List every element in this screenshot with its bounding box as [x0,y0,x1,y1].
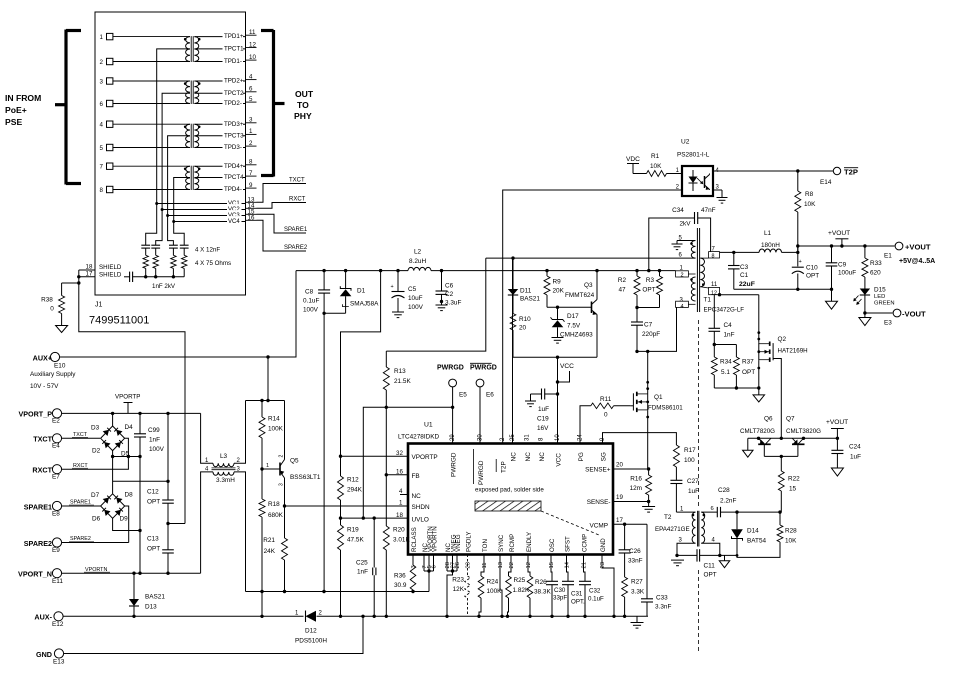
diode D12 PDS5100H [295,611,327,645]
capacitor C25 1nF [356,518,376,616]
svg-text:0.1uF: 0.1uF [588,596,604,603]
svg-text:7499511001: 7499511001 [89,315,149,327]
svg-text:Q1: Q1 [654,394,663,401]
U1 bottom pin 3 RCLASS [411,527,418,568]
svg-text:PDS5100H: PDS5100H [295,638,327,645]
transformer T1 EPC3472G-LF [672,228,745,314]
svg-text:IN FROM: IN FROM [5,93,41,103]
svg-text:D3: D3 [91,425,100,432]
svg-text:26: 26 [455,562,461,568]
svg-text:R17: R17 [684,447,696,454]
svg-text:SFST: SFST [564,536,571,552]
wire GND pin to rail [602,555,614,617]
capacitor C9 100uF [826,246,857,289]
diode D11 BAS21 [508,258,541,313]
svg-text:3.3K: 3.3K [631,589,645,596]
wire VPORT_N to L3 pin4 [201,472,213,573]
svg-text:OPT.: OPT. [571,599,585,606]
svg-text:5.1: 5.1 [721,369,730,376]
resistor R2 47 [618,271,640,310]
svg-text:E13: E13 [53,659,65,666]
svg-text:U1: U1 [424,422,433,429]
svg-text:E6: E6 [486,392,494,399]
svg-text:620: 620 [870,270,881,277]
ground chassis at R38 [56,326,68,333]
svg-text:Q5: Q5 [290,458,299,465]
svg-text:NC: NC [511,452,518,462]
svg-text:C4: C4 [724,322,733,329]
svg-text:C13: C13 [147,536,159,543]
J1 T2 center tap wire to VC2 [162,93,190,209]
svg-text:20: 20 [616,462,623,469]
svg-text:100V: 100V [303,307,319,314]
wire T1 pin7/8 to L1 [720,251,760,254]
wire shield to C12/C13 column [79,283,185,524]
svg-text:BAS21: BAS21 [520,296,540,303]
diode D15 LED GREEN [853,287,894,314]
U1 bottom pin 11 TON [482,539,489,568]
wire opto pin2 to T2P pin [503,190,682,444]
svg-text:3.3uF: 3.3uF [445,300,461,307]
wire VPORTN pins junction [424,555,434,592]
svg-text:VPORT_N: VPORT_N [18,570,52,579]
transistor Q2 HAT2169H MOSFET [757,295,807,388]
U1 bottom pin 5 VPORTN [427,526,434,568]
U1 top pin 24 PG [578,434,586,462]
svg-text:31: 31 [525,434,531,441]
svg-text:C32: C32 [589,588,601,595]
wire SPARE2 row [62,536,129,543]
J1 right pins 3 1 2 [245,117,256,147]
U1 bottom pin 6 VPORTN [431,526,438,568]
wire UVLO row [339,516,408,519]
transistor Q6 CMLT7820G [740,416,775,457]
wire PG pin to R11 [580,406,591,444]
svg-text:C26: C26 [629,548,641,555]
svg-text:J1: J1 [95,302,103,309]
J1 transformer T1 windings [184,36,201,62]
svg-text:11: 11 [711,282,718,288]
J1 termination RC column 1 [141,204,156,277]
svg-text:C24: C24 [849,444,861,451]
wire L3 pin3 down [234,472,246,592]
svg-text:E12: E12 [52,621,64,628]
svg-text:+: + [391,284,394,290]
svg-text:14: 14 [565,561,571,568]
svg-text:OUT: OUT [295,89,314,99]
wire bridge2 right to SPARE2 [125,506,129,543]
wire AUX+ to divider top [246,357,285,402]
svg-text:OPT: OPT [806,273,819,280]
U1 pin 4 NC [399,488,421,500]
capacitor C31 OPT [562,555,585,617]
net SPARE2 stub [257,220,308,251]
svg-text:1: 1 [249,128,253,135]
connector J1 box [95,12,246,295]
wire SENSE+ row [613,467,650,470]
svg-text:C25: C25 [356,560,368,567]
wire bridge1 to bridge2 vertical [112,457,114,494]
svg-text:FMMT624: FMMT624 [565,292,595,299]
svg-text:R14: R14 [268,416,280,423]
J1 right pins 13 14 15 16 [245,197,256,222]
wire L3 pin2 up [234,401,246,464]
resistor R16 12m [630,475,652,502]
svg-text:GREEN: GREEN [874,301,895,307]
svg-text:TPD1+: TPD1+ [224,33,244,40]
svg-text:AUX+: AUX+ [33,354,52,363]
svg-text:0.1uF: 0.1uF [303,298,319,305]
svg-text:2: 2 [681,273,684,279]
J1 T4 center tap wire to VC4 [174,178,190,222]
resistor R28 10K [737,512,797,557]
capacitor C19 1uF 16V [525,389,558,433]
svg-text:TPCT1: TPCT1 [224,46,244,53]
svg-text:R27: R27 [631,579,643,586]
net TXCT stub [257,178,307,203]
svg-text:EPC3472G-LF: EPC3472G-LF [704,307,745,314]
svg-text:E9: E9 [52,547,60,554]
svg-text:3: 3 [249,117,253,124]
svg-text:SHIELD: SHIELD [99,264,122,271]
J1 T3 right wires TPD3+ TPCT3 TPD3- [194,118,245,151]
svg-text:T2: T2 [664,514,672,521]
wire VCC node row [513,356,597,444]
wire SHDN row [283,504,408,507]
svg-text:3: 3 [279,483,285,486]
U1 top pin 29 PWRGD [450,434,458,477]
svg-text:6: 6 [100,101,104,108]
diode D14 BAT54 schottky [731,512,766,555]
resistor R19 47.5K [338,518,365,616]
ground triangle at C11 [719,555,730,567]
svg-text:47.5K: 47.5K [347,537,364,544]
capacitor C4 1nF [709,295,735,346]
svg-text:4: 4 [249,73,253,80]
capacitor C33 3.3nF [641,595,671,617]
wire R34 R37 bottom to Q2 source [714,386,760,389]
inductor L2 8.2uH [408,249,431,271]
resistor R23 12K optional [452,555,470,617]
svg-text:BSS63LT1: BSS63LT1 [290,474,321,481]
svg-text:R11: R11 [600,396,612,403]
wire SG row [603,433,677,445]
svg-text:PWRGD: PWRGD [437,365,464,372]
U1 top pin 9 SG [600,437,608,461]
resistor R9 20K [544,271,565,308]
svg-text:C27: C27 [687,478,699,485]
U1 bottom pin 23 GND [600,538,607,569]
svg-text:12: 12 [249,41,256,48]
wire NC pin25 stub [512,258,514,443]
svg-text:C9: C9 [838,262,847,269]
svg-text:R22: R22 [788,476,800,483]
svg-text:2kV: 2kV [679,221,691,228]
diode bridge D3 D4 D2 D5 [91,413,133,457]
svg-text:C34: C34 [672,207,684,214]
svg-text:8: 8 [249,159,253,166]
svg-text:VDC: VDC [626,156,640,163]
svg-text:R20: R20 [393,527,405,534]
svg-text:R10: R10 [519,316,531,323]
J1 termination RC column 2 [151,210,162,277]
svg-text:LED: LED [874,294,885,300]
svg-text:13: 13 [498,562,504,568]
svg-text:C31: C31 [571,591,583,598]
svg-text:22uF: 22uF [739,281,755,288]
svg-text:E5: E5 [459,392,467,399]
svg-text:C2: C2 [445,291,454,298]
J1 T4 right wires TPD4+ TPCT4 TPD4- [194,160,245,193]
svg-text:22: 22 [509,562,515,568]
terminal RXCT E7 [32,465,61,481]
svg-text:10: 10 [555,434,561,441]
capacitor C5 10uF 100V [391,271,424,318]
svg-text:12: 12 [526,562,532,568]
svg-text:C12: C12 [147,489,159,496]
resistor R13 21.5K [383,351,411,475]
U1 bottom pin 21 CCMP [581,534,588,569]
svg-text:294K: 294K [347,487,363,494]
resistor R11 0 [591,396,631,419]
wire bridge2 bottom [113,518,142,532]
J1 VC1-VC4 wires [155,198,245,225]
capacitor C10 OPT [792,246,819,289]
svg-text:SPARE1: SPARE1 [70,500,91,506]
J1 right pins 11 12 10 [245,29,256,61]
svg-text:FDMS86101: FDMS86101 [648,405,683,412]
svg-text:R36: R36 [394,573,406,580]
svg-text:6: 6 [249,86,253,93]
svg-text:PoE+: PoE+ [5,105,27,115]
svg-text:E14: E14 [820,179,832,186]
ground triangle at Q2 source [753,388,765,402]
wire T1 pin11/12 to Q2 drain [718,293,759,296]
U1 top pin 2 T2P [496,437,508,473]
svg-text:5: 5 [249,96,253,103]
U1 pin 17 VCMP [590,517,624,530]
J1 left pin 1 [100,33,191,41]
svg-text:RCLASS: RCLASS [411,527,418,552]
svg-text:SPARE2: SPARE2 [24,539,52,548]
svg-text:TXCT: TXCT [33,435,52,444]
svg-text:TPD1-: TPD1- [224,58,242,65]
resistor R22 15 [778,471,800,512]
svg-text:8: 8 [100,187,104,194]
svg-text:+VOUT: +VOUT [826,419,848,426]
svg-text:CMLT3820G: CMLT3820G [786,428,821,435]
capacitor C28 2.2nF [711,487,738,517]
svg-text:R37: R37 [742,359,754,366]
diode D17 zener 7.5V CMHZ4693 [551,307,594,343]
wire VPORTP to pin 32 [339,455,408,458]
wire L1 to +VOUT node [782,244,800,254]
svg-text:R2: R2 [618,277,627,284]
svg-text:R12: R12 [347,477,359,484]
svg-text:CCMP: CCMP [581,534,588,552]
svg-text:TPCT4: TPCT4 [224,174,244,181]
svg-text:8.2uH: 8.2uH [409,258,426,265]
svg-text:VPORTP: VPORTP [115,394,140,401]
svg-text:VCMP: VCMP [590,523,608,530]
transistor Q7 CMLT3820G [786,416,821,457]
capacitor 1nF 2kV shield cap [124,272,184,290]
svg-text:C3: C3 [740,264,749,271]
J1 termination RC column 4 [174,222,189,277]
svg-text:VCC: VCC [560,363,574,370]
U1 bottom pin 27 VNEG [450,534,457,568]
terminal GND E13 [36,649,65,666]
ground at bottom rail [631,616,644,628]
transistor Q3 FMMT624 [565,271,597,358]
svg-text:Auxiliary Supply: Auxiliary Supply [30,371,76,378]
wire Q1 source to SENSE [647,411,650,475]
J1 transformer T4 windings [184,166,201,190]
capacitor C13 OPT [147,524,174,575]
svg-text:38.3K: 38.3K [534,589,551,596]
svg-text:180nH: 180nH [761,242,780,249]
wire TXCT row [62,432,100,438]
wire rail to VPORTP divider [341,269,383,456]
svg-text:2: 2 [249,140,253,147]
svg-text:GND: GND [36,650,52,659]
svg-text:SPARE1: SPARE1 [24,503,52,512]
svg-text:100V: 100V [408,304,424,311]
svg-text:Q3: Q3 [584,282,593,289]
svg-text:C33: C33 [656,595,668,602]
svg-text:OPT: OPT [147,499,160,506]
svg-text:2.2nF: 2.2nF [720,498,736,505]
svg-text:GND: GND [600,538,607,552]
resistor R34 5.1 [711,345,732,389]
U1 top pin 8 NC [539,437,547,461]
wire VNEG pins junction [447,555,457,617]
wire VPORT_P to L3 pin1 [201,413,213,463]
svg-text:FB: FB [412,473,420,480]
svg-text:11: 11 [249,29,256,36]
svg-text:EPA4271GE: EPA4271GE [655,526,690,533]
wire Q6 Q7 top row [748,437,839,440]
wire VCMP to C26 C33 [625,524,647,599]
wire bridge1 bottom row [111,451,142,459]
wire aux winding to R13 pullup [386,258,486,351]
wire secondary gnd row with C11 [675,554,738,557]
J1 left pin 2 [100,58,191,66]
J1 T3 center tap wire to VC3 [168,136,190,216]
svg-text:RXCT: RXCT [32,466,52,475]
wire Q6 Q7 emitter row [764,455,798,471]
svg-text:VPORTN: VPORTN [431,526,438,552]
svg-text:TPD3-: TPD3- [224,144,242,151]
wire SPARE1 row [62,500,101,507]
svg-text:C5: C5 [408,286,417,293]
svg-text:Q7: Q7 [786,416,795,423]
svg-text:R23: R23 [452,577,464,584]
capacitor C3 C1 22uF [728,252,755,289]
svg-text:R28: R28 [785,528,797,535]
wire SENSE- row [613,500,650,503]
svg-text:PGDLY: PGDLY [465,531,472,552]
ground at T2 pin3 [671,560,684,566]
resistor R10 20 [510,314,531,358]
net flag VPORTP [115,394,140,414]
resistor R38 0 [41,283,64,326]
U1 pin 16 FB [396,469,420,480]
bracket IN FROM PoE+ PSE [5,30,81,185]
svg-text:D2: D2 [92,448,101,455]
svg-text:TPD2+: TPD2+ [224,78,244,85]
resistor R1 10K [647,153,683,177]
J1 right pins 8 7 9 [245,159,256,189]
svg-text:C10: C10 [806,265,818,272]
svg-text:CMLT7820G: CMLT7820G [740,428,775,435]
terminal +VOUT E1 [884,242,935,265]
J1 shield pins 18 17 [79,264,122,279]
wire Q2 gate drive [773,359,781,439]
svg-text:VC4: VC4 [228,219,240,225]
resistor R20 3.01K [383,475,410,617]
capacitor C2 3.3uF [436,271,462,311]
U1 top pin 25 NC [510,434,518,462]
svg-text:11: 11 [482,562,488,568]
svg-text:L3: L3 [220,453,228,460]
terminal VPORT_N E11 [18,569,63,585]
ground triangle at Q6 [743,438,754,457]
svg-text:E2: E2 [52,418,60,425]
svg-text:ENDLY: ENDLY [526,532,533,552]
U1 bottom pin 22 RCMP [509,534,516,569]
net flag +VOUT gate supply [826,419,848,438]
svg-text:NC: NC [539,452,546,462]
capacitor C99 1nF 100V [134,413,165,456]
wire -VOUT row [863,311,892,317]
svg-text:4 X 75 Ohms: 4 X 75 Ohms [195,260,231,267]
U1 pin 1 SHDN [399,500,430,512]
svg-text:R8: R8 [805,191,814,198]
wire aux winding row to T1 pin6 [486,256,696,259]
transistor Q5 BSS63LT1 [279,401,321,539]
terminal SPARE2 E9 [24,538,62,554]
svg-text:U2: U2 [681,139,690,146]
capacitor C26 33nF [619,548,643,577]
svg-text:33nF: 33nF [628,558,643,565]
J1 left pin 6 [100,100,191,108]
J1 transformer T3 windings [184,124,201,148]
svg-text:1nF: 1nF [149,437,160,444]
svg-text:C11: C11 [704,563,716,570]
J1 left pin 4 [100,121,191,129]
resistor R36 30.9 [394,555,416,592]
svg-text:1: 1 [399,500,403,507]
svg-text:C1: C1 [740,272,749,279]
svg-text:15: 15 [789,486,797,493]
wire C99 column to VPORTN [138,457,141,575]
svg-text:R34: R34 [720,359,732,366]
J1 transformer T2 windings [184,81,201,105]
svg-text:NC: NC [525,452,532,462]
svg-text:10: 10 [249,54,256,61]
svg-text:SENSE+: SENSE+ [585,467,611,474]
svg-text:1.82K: 1.82K [513,587,530,594]
svg-text:4: 4 [681,304,684,310]
resistor R18 680K [259,469,284,616]
svg-text:D11: D11 [520,288,532,295]
svg-text:D17: D17 [567,313,579,320]
svg-text:PWRGD: PWRGD [470,365,497,372]
svg-text:TPCT3: TPCT3 [224,132,244,139]
svg-text:1uF: 1uF [688,488,699,495]
svg-text:E8: E8 [52,511,60,518]
